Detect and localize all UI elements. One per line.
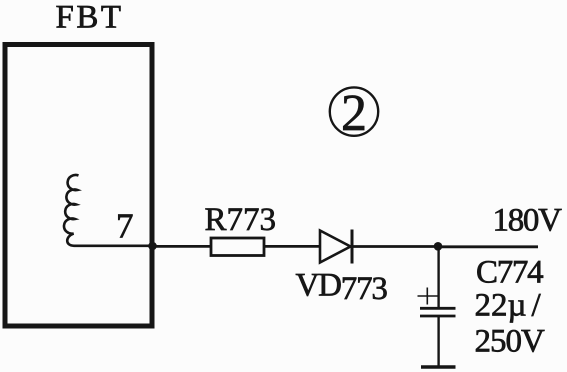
plus polarity mark horizontal	[418, 295, 439, 297]
svg-text:2: 2	[341, 85, 367, 142]
winding coil (FBT secondary)	[64, 175, 152, 246]
wire pin7 to resistor	[152, 245, 211, 248]
svg-text:250V: 250V	[475, 323, 546, 359]
plus polarity mark vertical	[426, 288, 428, 305]
transformer FBT box	[5, 45, 152, 327]
capacitor C774 bottom plate	[420, 315, 456, 318]
circled 2 ring	[330, 87, 378, 135]
svg-text:7: 7	[116, 207, 134, 246]
bottom terminal bar	[421, 365, 456, 368]
wire capacitor to bottom terminal	[437, 316, 439, 366]
resistor R773 body	[211, 238, 264, 256]
wire output node to 180V terminal	[438, 245, 538, 248]
svg-text:180V: 180V	[493, 203, 563, 239]
svg-text:22µ/: 22µ/	[475, 287, 542, 323]
diode cathode bar	[351, 230, 354, 264]
wire node down to capacitor	[437, 246, 439, 308]
svg-text:FBT: FBT	[56, 0, 124, 35]
svg-text:VD773: VD773	[296, 267, 388, 307]
wire resistor to diode	[264, 245, 320, 248]
junction dot pin 7	[148, 242, 157, 251]
svg-text:R773: R773	[205, 202, 277, 238]
diode VD773 triangle	[320, 231, 351, 263]
wire diode to output node	[352, 245, 438, 248]
svg-text:C774: C774	[476, 254, 543, 290]
capacitor C774 top plate	[420, 307, 456, 310]
output node junction dot	[434, 242, 443, 251]
